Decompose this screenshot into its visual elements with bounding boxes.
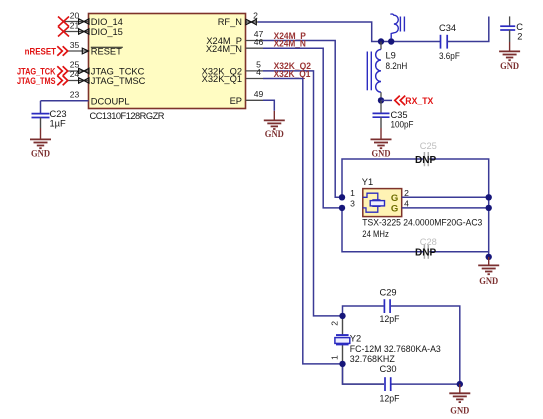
svg-text:2: 2 [404,188,409,198]
svg-text:GND: GND [479,276,498,287]
svg-text:RESET: RESET [91,47,122,57]
pin DIO_15 (21) [63,20,89,34]
ground GND (C23) [30,139,51,159]
crystal glyph inside Y1 [363,193,378,200]
net label JTAG_TMS [17,76,68,87]
svg-text:C34: C34 [439,23,456,33]
wire C25 row [342,159,423,197]
svg-text:CC1310F128RGZR: CC1310F128RGZR [90,111,165,121]
svg-text:23: 23 [70,90,80,100]
svg-text:46: 46 [254,37,264,47]
svg-text:1µF: 1µF [50,119,67,129]
svg-text:DNP: DNP [415,155,436,166]
wire C right to ground [509,30,511,42]
wire C28 row [342,208,423,252]
wire X32K_Q1 to Y2 pin1 [263,79,342,364]
svg-text:X32K_Q1: X32K_Q1 [274,69,311,79]
net label RX_TX [395,96,434,106]
svg-text:X32K_Q1: X32K_Q1 [202,74,242,84]
svg-text:8.2nH: 8.2nH [386,61,408,71]
svg-text:RF_N: RF_N [218,17,242,27]
svg-text:32.768KHZ: 32.768KHZ [350,354,395,364]
svg-text:35: 35 [70,40,80,50]
crystal Y2 FC-12M [335,334,441,364]
junction Y2 pin2 [339,313,345,319]
svg-text:JTAG_TMSC: JTAG_TMSC [91,76,146,86]
inductor L9 8.2nH [367,42,407,101]
junction C30 right [457,381,463,387]
svg-text:DIO_15: DIO_15 [91,27,123,37]
junction node RF row left [378,38,384,44]
svg-text:1: 1 [350,188,355,198]
pin DIO_14 (20) [63,10,89,24]
svg-text:G: G [391,193,398,204]
svg-text:GND: GND [31,149,50,160]
capacitor C34 3.6pF [439,23,460,61]
wire DCOUPL down to C23 [40,101,42,113]
svg-text:C30: C30 [380,364,397,374]
svg-text:GND: GND [372,148,391,159]
inductor L10 (top, to antenna) [390,14,404,38]
junction Y1 pin2 [486,194,492,200]
svg-text:GND: GND [450,406,469,417]
capacitor C28 DNP [415,237,437,259]
capacitor C30 12pF [380,364,400,403]
svg-text:FC-12M 32.7680KA-A3: FC-12M 32.7680KA-A3 [350,344,441,354]
junction Y1 pin3 [339,205,345,211]
wire C35 to ground [380,117,382,128]
ground GND (Y2) [449,393,470,416]
svg-text:Y1: Y1 [362,177,373,187]
svg-text:GND: GND [500,61,519,72]
capacitor C (right edge, clipped) [500,16,523,41]
svg-text:RX_TX: RX_TX [405,96,434,106]
svg-text:JTAG_TCKC: JTAG_TCKC [91,67,145,77]
svg-text:GND: GND [265,129,284,140]
svg-text:C25: C25 [420,141,437,151]
svg-text:24: 24 [70,69,80,79]
capacitor C35 100pF [373,100,414,129]
svg-text:X24M_N: X24M_N [206,44,242,54]
wire Y1 right vertical [488,197,490,257]
svg-text:JTAG_TMS: JTAG_TMS [17,76,56,86]
capacitor C29 12pF [380,287,400,324]
svg-text:Y2: Y2 [350,334,361,344]
capacitor C25 DNP [415,141,437,166]
svg-text:25: 25 [70,59,80,69]
pin EP (49) [246,89,264,100]
wire C23 to ground [40,118,42,129]
wire X32K_Q2 to Y2 pin2 [263,71,342,316]
wire EP to ground [263,100,274,111]
svg-text:C29: C29 [380,287,397,297]
svg-text:JTAG_TCK: JTAG_TCK [17,66,56,76]
IC U1 CC1310F128RGZR body [89,14,246,122]
pin X32K_Q2 (5) [246,60,264,71]
svg-text:12pF: 12pF [380,314,400,324]
ground GND (top right) [499,51,520,71]
wire X24M_P to Y1 pin1 [263,41,342,198]
junction Y1 pin1 [339,194,345,200]
wire to GND (Y1) [488,257,490,265]
svg-text:3: 3 [350,199,355,209]
ground GND (EP) [264,120,285,140]
svg-text:4: 4 [256,67,261,77]
svg-text:2: 2 [517,31,522,41]
crystal Y1 TSX-3225 [350,177,409,217]
pin X24M_N (46) [246,37,264,48]
svg-text:20: 20 [70,10,80,20]
svg-text:nRESET: nRESET [25,46,57,56]
svg-text:2: 2 [330,321,340,326]
capacitor C23 [32,109,67,129]
wire to RX_TX flag [381,99,392,101]
svg-text:49: 49 [254,89,264,99]
svg-text:100pF: 100pF [391,119,414,129]
svg-text:DIO_14: DIO_14 [91,17,123,27]
wire Y2 bottom row [391,383,460,385]
wire Y2 spine [343,316,385,384]
wire C34 right, up [447,17,489,42]
wire Y1 pin4 [402,207,489,209]
svg-text:1: 1 [330,355,340,360]
svg-text:4: 4 [404,199,409,209]
wire RF_N to matching network [258,22,440,42]
svg-text:DCOUPL: DCOUPL [91,96,130,106]
svg-text:G: G [391,204,398,215]
wire Y1 pin2 [402,196,489,198]
svg-text:24 MHz: 24 MHz [362,229,389,239]
pin X24M_P (47) [246,29,264,40]
wire X24M_N to Y1 pin3 [263,48,342,208]
junction node RF row right [388,38,394,44]
ground GND (C35) [371,139,392,159]
junction C28 right [486,254,492,260]
svg-text:TSX-3225 24.0000MF20G-AC3: TSX-3225 24.0000MF20G-AC3 [362,218,482,228]
pin DCOUPL (23) wire [41,90,89,101]
svg-text:C23: C23 [50,109,67,119]
svg-text:3.6pF: 3.6pF [439,51,460,61]
svg-text:L9: L9 [386,51,396,61]
junction Y1 pin4 [486,205,492,211]
junction node RX_TX [378,97,384,103]
net label JTAG_TCK [17,66,68,76]
svg-text:12pF: 12pF [380,393,400,403]
pin RESET (35) [68,40,89,54]
svg-text:2: 2 [253,11,258,21]
no-connect X on DIO_14 [58,17,69,27]
svg-text:EP: EP [230,96,242,106]
pin X32K_Q1 (4) [246,67,264,78]
wire Y2 top row [343,306,384,316]
junction Y2 pin1 [339,361,345,367]
wire to GND (Y2) [459,384,461,392]
svg-text:X24M_N: X24M_N [274,39,307,49]
no-connect X on DIO_15 [58,27,69,37]
pin RF_N (2) [246,11,259,25]
net label nRESET [25,46,68,56]
pin JTAG_TCKC (25) [68,59,89,73]
svg-text:DNP: DNP [415,247,436,258]
svg-text:21: 21 [70,20,80,30]
pin JTAG_TMSC (24) [68,69,89,83]
ground GND (Y1) [478,265,499,286]
